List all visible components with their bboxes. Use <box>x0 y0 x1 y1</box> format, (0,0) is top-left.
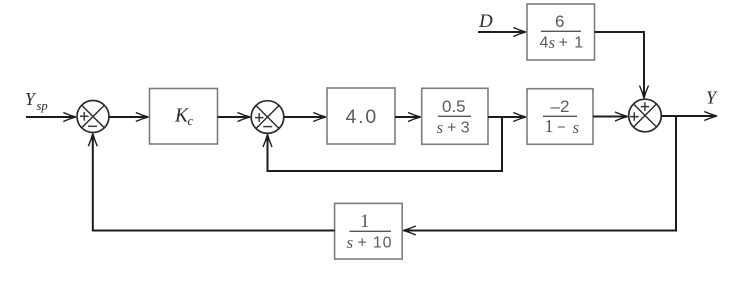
svg-text:1: 1 <box>360 211 370 232</box>
wire inner feedback from branch after 0.5/(s+3) into S2 <box>263 117 502 171</box>
svg-text:6: 6 <box>555 12 564 31</box>
block 1/(s+10) <box>335 203 403 259</box>
svg-text:s: s <box>573 118 580 137</box>
svg-text:s: s <box>549 33 556 52</box>
wire S3 to output Y <box>662 112 718 121</box>
svg-text:D: D <box>478 11 493 32</box>
summing junction S3 <box>629 99 662 132</box>
node Ysp label <box>25 89 48 113</box>
wire S1 to block Kc <box>109 113 149 122</box>
summing junction S2 <box>251 101 284 134</box>
svg-text:sp: sp <box>37 99 48 113</box>
wire D input to block 6/(4s+1) <box>478 28 527 37</box>
svg-text:0.5: 0.5 <box>442 97 466 116</box>
svg-text:s: s <box>437 118 444 137</box>
wire outer feedback left segment from 1/(s+10) up into S1 <box>88 133 334 231</box>
wire 4.0 to block 0.5/(s+3) <box>395 113 421 122</box>
svg-text:−: − <box>557 119 566 136</box>
wire Kc to summing junction S2 <box>218 113 251 122</box>
svg-text:+ 10: + 10 <box>358 235 393 252</box>
block -2/(1-s) <box>527 89 593 145</box>
wire 0.5/(s+3) to block -2/(1-s) with branch node <box>488 113 527 122</box>
wire S2 to block 4.0 <box>284 113 327 122</box>
block 0.5/(s+3) <box>422 88 488 144</box>
summing junction S1 <box>77 101 109 133</box>
svg-text:1: 1 <box>545 116 554 136</box>
node D label <box>478 11 493 32</box>
wire Ysp input to summing junction S1 <box>26 113 77 122</box>
block Kc <box>150 89 218 145</box>
svg-text:4: 4 <box>540 35 549 52</box>
svg-text:+ 1: + 1 <box>559 35 585 52</box>
wire 6/(4s+1) to S3 down into junction <box>595 32 649 99</box>
svg-text:–2: –2 <box>551 97 570 116</box>
block 4.0 <box>327 88 395 144</box>
svg-text:s: s <box>347 233 354 252</box>
svg-text:+ 3: + 3 <box>447 120 470 137</box>
block 6/(4s+1) <box>527 4 595 60</box>
node Y output label <box>706 88 718 108</box>
svg-text:c: c <box>188 114 194 128</box>
wire -2/(1-s) to summing junction S3 <box>593 112 628 121</box>
svg-text:4.0: 4.0 <box>346 106 379 128</box>
wire outer feedback right segment from branch after S3 into 1/(s+10) <box>403 116 676 235</box>
